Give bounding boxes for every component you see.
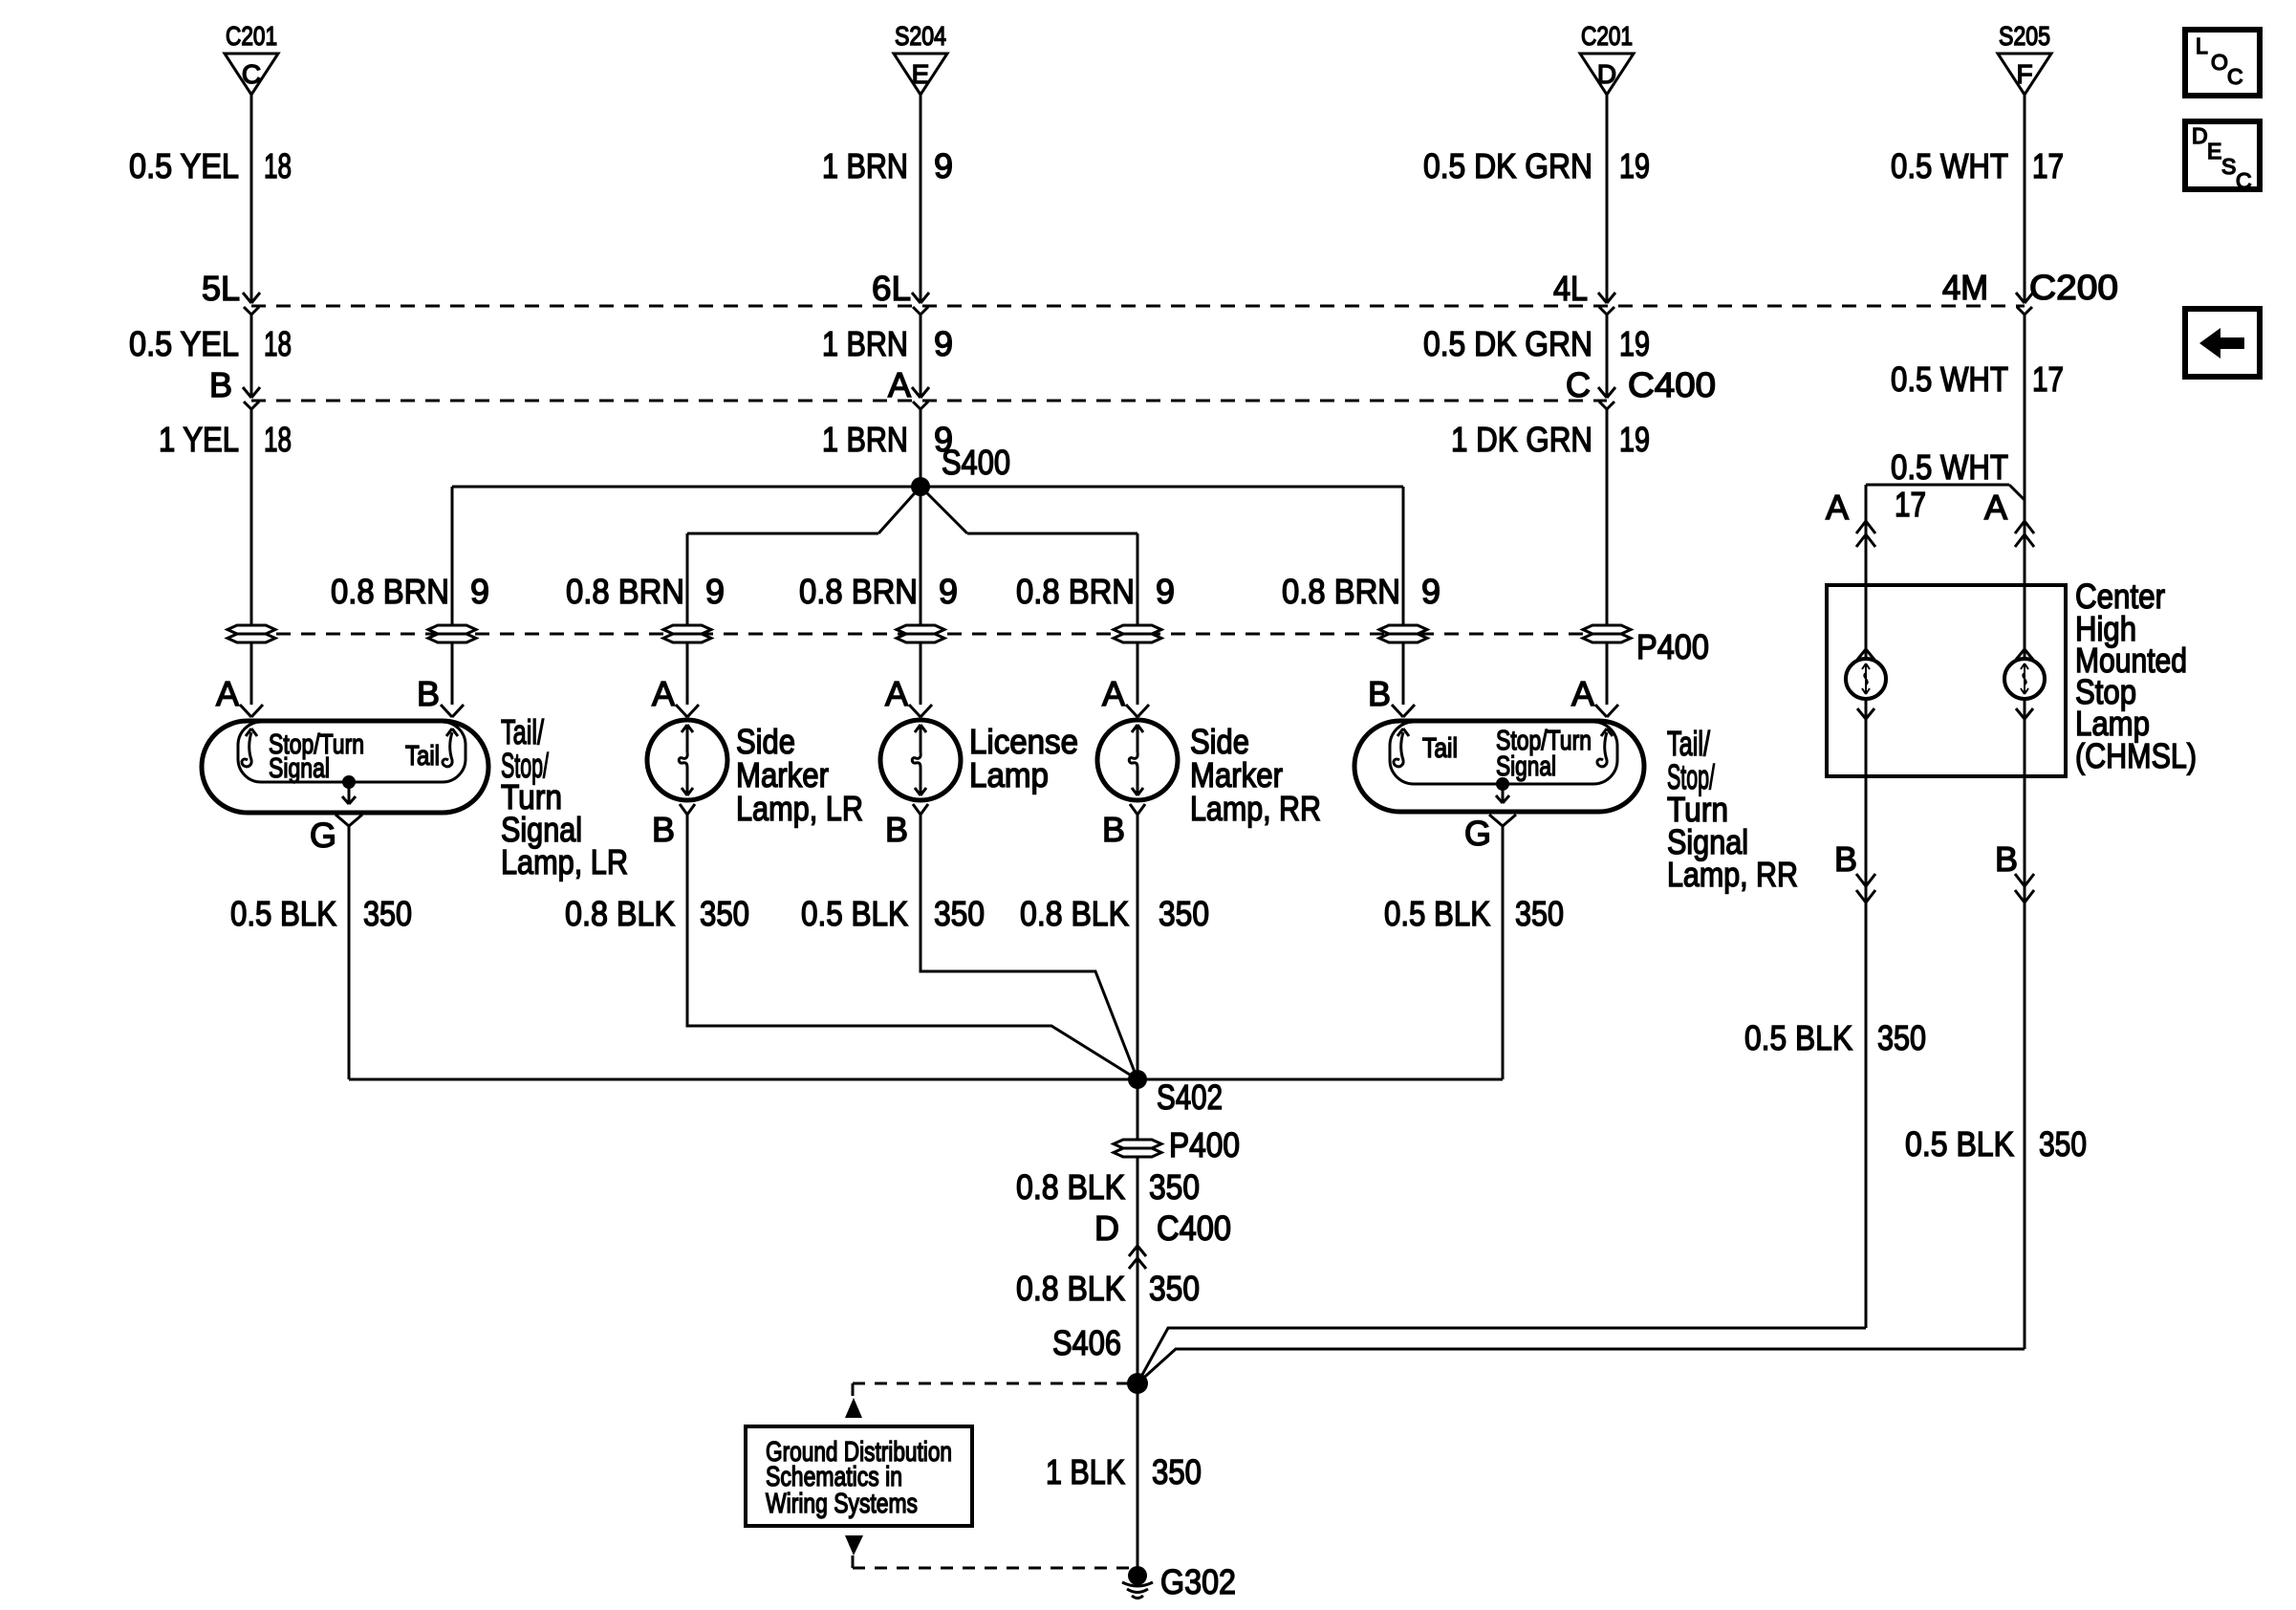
svg-text:B: B xyxy=(1368,674,1391,713)
svg-text:B: B xyxy=(652,810,675,849)
svg-text:350: 350 xyxy=(700,894,749,933)
svg-text:C400: C400 xyxy=(1157,1208,1231,1248)
svg-text:Signal: Signal xyxy=(269,753,330,784)
svg-text:0.8 BRN: 0.8 BRN xyxy=(331,572,449,611)
svg-text:1 BRN: 1 BRN xyxy=(822,420,908,459)
svg-text:0.8 BRN: 0.8 BRN xyxy=(566,572,684,611)
svg-text:0.5 BLK: 0.5 BLK xyxy=(230,894,336,933)
svg-text:Tail: Tail xyxy=(1422,733,1458,764)
svg-text:1 BRN: 1 BRN xyxy=(822,146,908,185)
svg-text:0.8 BLK: 0.8 BLK xyxy=(1020,894,1129,933)
svg-text:B: B xyxy=(885,810,908,849)
svg-text:B: B xyxy=(209,365,232,404)
svg-text:G302: G302 xyxy=(1160,1562,1236,1601)
svg-text:0.8 BLK: 0.8 BLK xyxy=(1016,1167,1125,1207)
svg-text:1 BRN: 1 BRN xyxy=(822,324,908,363)
svg-text:350: 350 xyxy=(363,894,412,933)
svg-text:A: A xyxy=(1826,488,1849,527)
svg-text:350: 350 xyxy=(1515,894,1564,933)
svg-text:A: A xyxy=(888,365,911,404)
svg-text:0.8 BRN: 0.8 BRN xyxy=(1016,572,1135,611)
svg-text:5L: 5L xyxy=(202,269,240,308)
svg-text:350: 350 xyxy=(2039,1124,2087,1164)
svg-text:C: C xyxy=(1566,365,1591,404)
svg-text:19: 19 xyxy=(1619,146,1650,185)
svg-text:E: E xyxy=(2207,139,2221,163)
svg-text:18: 18 xyxy=(264,146,292,185)
svg-text:G: G xyxy=(310,816,336,855)
svg-text:S402: S402 xyxy=(1157,1077,1223,1117)
svg-text:0.5 YEL: 0.5 YEL xyxy=(129,324,239,363)
svg-text:P400: P400 xyxy=(1636,627,1709,666)
svg-text:0.5 WHT: 0.5 WHT xyxy=(1891,359,2008,399)
svg-text:C: C xyxy=(2236,168,2252,193)
svg-text:18: 18 xyxy=(264,420,292,459)
svg-text:1 BLK: 1 BLK xyxy=(1046,1452,1125,1491)
svg-text:0.8 BRN: 0.8 BRN xyxy=(1282,572,1400,611)
svg-text:19: 19 xyxy=(1619,420,1650,459)
svg-text:0.8 BLK: 0.8 BLK xyxy=(1016,1269,1125,1308)
svg-text:Signal: Signal xyxy=(1496,751,1556,782)
svg-text:1 DK GRN: 1 DK GRN xyxy=(1451,420,1592,459)
svg-text:S: S xyxy=(2221,154,2236,179)
svg-text:17: 17 xyxy=(2032,146,2064,185)
svg-text:9: 9 xyxy=(939,572,958,611)
svg-text:A: A xyxy=(1102,674,1125,713)
svg-text:Wiring Systems: Wiring Systems xyxy=(766,1489,918,1519)
svg-text:C201: C201 xyxy=(1581,21,1633,51)
svg-text:S406: S406 xyxy=(1052,1323,1121,1362)
svg-text:Lamp: Lamp xyxy=(969,755,1049,794)
svg-text:B: B xyxy=(1102,810,1125,849)
svg-text:19: 19 xyxy=(1619,324,1650,363)
svg-text:0.5 WHT: 0.5 WHT xyxy=(1891,447,2008,487)
svg-text:17: 17 xyxy=(2032,359,2064,399)
svg-text:9: 9 xyxy=(934,146,953,185)
svg-text:L: L xyxy=(2196,33,2208,58)
svg-text:350: 350 xyxy=(1877,1018,1926,1057)
svg-text:C201: C201 xyxy=(226,21,277,51)
svg-text:0.8 BRN: 0.8 BRN xyxy=(799,572,918,611)
svg-text:0.5 WHT: 0.5 WHT xyxy=(1891,146,2008,185)
svg-text:0.5 BLK: 0.5 BLK xyxy=(1905,1124,2014,1164)
svg-text:4L: 4L xyxy=(1553,269,1588,308)
svg-text:Lamp, LR: Lamp, LR xyxy=(736,789,863,828)
svg-text:350: 350 xyxy=(934,894,985,933)
svg-text:1 YEL: 1 YEL xyxy=(159,420,239,459)
svg-text:9: 9 xyxy=(705,572,725,611)
svg-text:O: O xyxy=(2211,50,2228,75)
svg-text:Tail: Tail xyxy=(405,741,440,772)
svg-text:B: B xyxy=(1995,839,2018,879)
svg-text:C400: C400 xyxy=(1628,365,1716,404)
svg-text:18: 18 xyxy=(264,324,292,363)
svg-text:A: A xyxy=(1984,488,2007,527)
svg-text:0.5 DK GRN: 0.5 DK GRN xyxy=(1423,324,1592,363)
svg-text:(CHMSL): (CHMSL) xyxy=(2075,736,2197,775)
svg-text:0.5 DK GRN: 0.5 DK GRN xyxy=(1423,146,1592,185)
svg-text:0.5 YEL: 0.5 YEL xyxy=(129,146,239,185)
svg-text:A: A xyxy=(885,674,908,713)
svg-text:17: 17 xyxy=(1895,485,1926,524)
svg-text:0.5 BLK: 0.5 BLK xyxy=(801,894,908,933)
svg-text:0.8 BLK: 0.8 BLK xyxy=(565,894,675,933)
svg-text:S205: S205 xyxy=(1999,21,2050,51)
svg-text:4M: 4M xyxy=(1942,268,1988,307)
svg-text:0.5 BLK: 0.5 BLK xyxy=(1384,894,1490,933)
svg-text:B: B xyxy=(417,674,440,713)
svg-text:350: 350 xyxy=(1152,1452,1202,1491)
svg-text:9: 9 xyxy=(934,324,953,363)
svg-text:F: F xyxy=(2016,59,2032,89)
svg-text:350: 350 xyxy=(1149,1269,1200,1308)
svg-text:6L: 6L xyxy=(872,269,911,308)
svg-text:P400: P400 xyxy=(1169,1125,1240,1164)
svg-text:0.5 BLK: 0.5 BLK xyxy=(1744,1018,1852,1057)
svg-text:350: 350 xyxy=(1159,894,1209,933)
svg-text:9: 9 xyxy=(1421,572,1440,611)
svg-text:A: A xyxy=(1571,674,1594,713)
svg-text:E: E xyxy=(912,59,930,89)
svg-text:Lamp, RR: Lamp, RR xyxy=(1190,789,1321,828)
svg-text:A: A xyxy=(652,674,675,713)
svg-text:G: G xyxy=(1464,814,1491,853)
svg-text:Lamp, RR: Lamp, RR xyxy=(1667,855,1798,894)
svg-text:9: 9 xyxy=(470,572,489,611)
svg-text:S400: S400 xyxy=(942,443,1010,482)
svg-text:Lamp, LR: Lamp, LR xyxy=(501,842,628,881)
svg-text:C: C xyxy=(242,59,261,89)
svg-text:C200: C200 xyxy=(2029,268,2118,307)
svg-text:D: D xyxy=(1094,1208,1119,1248)
svg-text:D: D xyxy=(1597,59,1616,89)
svg-text:350: 350 xyxy=(1149,1167,1200,1207)
svg-text:C: C xyxy=(2227,64,2243,89)
svg-text:B: B xyxy=(1834,839,1857,879)
svg-text:D: D xyxy=(2192,123,2208,148)
svg-text:9: 9 xyxy=(1156,572,1175,611)
svg-text:A: A xyxy=(216,674,239,713)
svg-text:S204: S204 xyxy=(895,21,946,51)
